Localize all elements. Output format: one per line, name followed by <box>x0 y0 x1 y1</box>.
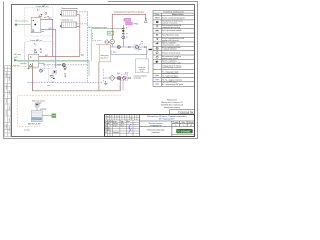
svg-text:Листов: Листов <box>188 122 193 124</box>
pipe to consumer drop <box>147 47 152 59</box>
legend symbols column <box>155 17 159 84</box>
radiator group 2 heating <box>61 20 77 28</box>
svg-text:насосная: насосная <box>139 67 146 69</box>
valve on lower return <box>47 82 54 88</box>
valve on boiler1 return <box>42 31 44 32</box>
svg-text:КП "Горенки-Юг": КП "Горенки-Юг" <box>159 119 175 121</box>
svg-text:существующие в работе: существующие в работе <box>162 67 181 69</box>
svg-text:Т.контр: Т.контр <box>105 128 110 130</box>
svg-text:установка: установка <box>134 78 141 80</box>
svg-text:насосная повысит.: насосная повысит. <box>134 76 148 78</box>
gas valve train column <box>122 25 128 47</box>
recirculation pump in dashed box <box>134 42 143 50</box>
svg-text:ввод газа: ввод газа <box>13 65 19 67</box>
svg-text:слив: слив <box>47 85 50 87</box>
booster unit pump in dashed pink box <box>117 73 128 81</box>
svg-text:В1 - водопровод ХВС дома: В1 - водопровод ХВС дома <box>162 84 183 86</box>
svg-text:Иванов: Иванов <box>113 123 118 125</box>
svg-text:28: 28 <box>190 125 192 127</box>
svg-text:оборудования: оборудования <box>150 125 162 127</box>
expansion vessel below <box>64 66 66 70</box>
svg-text:ГРПШ: ГРПШ <box>134 24 139 26</box>
boiler1 circuit pump <box>40 69 43 72</box>
svg-text:В-1: В-1 <box>34 44 37 46</box>
svg-text:пружинный сбросной: пружинный сбросной <box>162 39 179 42</box>
svg-text:Кран пробковый газовый: Кран пробковый газовый <box>162 29 182 32</box>
drain cluster below return <box>64 73 66 76</box>
svg-text:Подп: Подп <box>120 121 124 123</box>
drain to sewer symbol <box>104 81 107 85</box>
svg-text:Ду32: Ду32 <box>125 73 128 75</box>
title block top band marks <box>105 115 134 120</box>
make-up water label <box>20 63 27 65</box>
boiler 2 safety group <box>34 49 42 53</box>
svg-text:компенсатор осевой: компенсатор осевой <box>162 57 178 60</box>
svg-text:ГИП: ГИП <box>117 115 119 117</box>
return drop to lower header <box>87 65 89 82</box>
title block object name <box>147 115 187 121</box>
svg-text:Обозн.: Обозн. <box>155 14 160 16</box>
gas filter diamond <box>105 40 110 45</box>
svg-text:Ду25: Ду25 <box>14 57 18 59</box>
notes text block <box>161 100 184 109</box>
title block outer <box>105 114 195 136</box>
gas solenoid valve box <box>53 70 56 74</box>
ladder rotated text marks <box>6 73 10 132</box>
project boundary dashed tan <box>17 96 121 127</box>
svg-text:станция: станция <box>139 69 145 71</box>
gas meter unit label boiler2 <box>27 67 30 69</box>
svg-text:Кран Маевского возд.: Кран Маевского возд. <box>162 34 179 36</box>
return dashed lower header <box>28 69 104 82</box>
signature squiggle <box>129 124 131 132</box>
Du15 label <box>113 51 116 53</box>
svg-text:Разраб: Разраб <box>105 123 110 125</box>
cold water inlet top (well water) <box>15 21 32 26</box>
svg-text:Дата: Дата <box>127 121 130 123</box>
gas pipe main <box>112 14 146 39</box>
svg-text:Петров: Петров <box>113 125 118 127</box>
sheet outer border <box>4 2 198 139</box>
svg-text:П: П <box>175 125 176 127</box>
booster filter diamond <box>109 75 115 81</box>
svg-text:ГУ301016 ТМ: ГУ301016 ТМ <box>178 111 193 114</box>
booster label <box>134 76 148 80</box>
svg-text:Лист: Лист <box>182 122 186 124</box>
svg-text:Н.контр: Н.контр <box>105 130 110 132</box>
svg-text:Стадия: Стадия <box>173 122 178 124</box>
svg-text:1 этаж, АВР №1: 1 этаж, АВР №1 <box>30 39 43 42</box>
note under boundary <box>24 129 30 131</box>
svg-text:Пров.: Пров. <box>105 125 109 127</box>
boiler bottom label <box>28 123 40 126</box>
svg-text:Ду15: Ду15 <box>113 51 116 53</box>
boiler unit 2 labels <box>30 39 43 45</box>
svg-text:Ду32: Ду32 <box>117 73 120 75</box>
svg-text:12.05: 12.05 <box>130 118 133 120</box>
boiler room wall brown <box>98 62 100 91</box>
boiler unit 2 dashed boundary <box>25 42 53 69</box>
svg-text:Ду20: Ду20 <box>49 28 52 30</box>
boiler2 return pipe <box>39 63 44 65</box>
left stamp ladder strip <box>5 66 11 137</box>
svg-text:электроприводом сервο: электроприводом сервο <box>162 62 181 64</box>
svg-text:2 этаж, АВР №2: 2 этаж, АВР №2 <box>36 5 49 8</box>
pipe T2 return from boiler 1 <box>41 29 56 68</box>
circulation pump K2 circuit <box>62 64 65 67</box>
wall boiler front view <box>31 111 42 122</box>
boiler unit 1 labels <box>36 5 49 11</box>
gas metering unit boundary <box>96 45 111 62</box>
chimney adapter <box>35 103 46 110</box>
legend table frame <box>153 10 194 86</box>
svg-text:Наименование: Наименование <box>172 14 184 16</box>
svg-text:Клапан запорный проходной: Клапан запорный проходной <box>162 16 185 19</box>
title block right grid <box>140 121 195 137</box>
svg-text:Согласовано: Согласовано <box>105 115 112 117</box>
svg-text:Московская Область, Пушкинский: Московская Область, Пушкинский район, <box>147 115 187 118</box>
hot water dashed branch <box>93 33 103 41</box>
radiator supply riser T1 <box>77 15 80 57</box>
title block left texts <box>105 121 130 134</box>
cold water branch down <box>88 61 90 76</box>
document number cell <box>170 110 195 115</box>
svg-text:с мокрым ротором: с мокрым ротором <box>162 49 177 51</box>
stage/sheet header <box>173 122 193 127</box>
boiler unit 1 dashed boundary <box>25 8 53 36</box>
svg-text:1: 1 <box>183 125 184 127</box>
svg-text:подпитка: подпитка <box>20 63 27 65</box>
booster pump line <box>110 46 147 48</box>
gas line label <box>114 11 144 14</box>
svg-text:05.16: 05.16 <box>121 125 125 127</box>
svg-text:ХВС ввод: ХВС ввод <box>14 54 21 56</box>
legend table header text <box>155 12 184 17</box>
valve on pump line <box>128 46 130 47</box>
svg-text:Полотенцесушители: Полотенцесушители <box>61 8 77 10</box>
radiator group 1 towel rails <box>61 8 77 16</box>
gas inlet dashed tan <box>12 65 34 67</box>
svg-text:решения: решения <box>152 132 160 134</box>
svg-text:ХВС из скважины: ХВС из скважины <box>15 21 29 23</box>
wall boiler K1 <box>29 54 39 67</box>
pump branch dashed <box>43 65 45 71</box>
svg-text:Ду25: Ду25 <box>45 55 48 57</box>
bottom unit caption <box>32 99 45 104</box>
wall boiler K2 <box>31 18 41 33</box>
cold water riser <box>90 29 92 61</box>
company logo <box>172 129 195 134</box>
svg-text:СВК: СВК <box>108 33 111 35</box>
drawing inner frame <box>12 5 195 137</box>
building outline brown <box>32 63 120 91</box>
Du50 label <box>138 49 142 51</box>
svg-text:Узел учета: Узел учета <box>101 55 109 57</box>
svg-text:Н: Н <box>125 115 126 117</box>
svg-text:№док: №док <box>113 121 117 123</box>
gas meter <box>110 39 115 47</box>
document title text <box>147 123 165 134</box>
sewer purple drop <box>122 80 124 91</box>
valves on return header <box>57 64 61 65</box>
svg-text:2 шт: 2 шт <box>140 71 143 73</box>
return header dashed T2 <box>44 64 88 66</box>
title block left grid <box>104 114 139 136</box>
svg-text:Ду32: Ду32 <box>81 55 84 57</box>
metering unit label <box>101 55 109 59</box>
radiator port valves <box>60 14 62 27</box>
svg-text:Сидоров: Сидоров <box>113 132 119 134</box>
cold water inlet bottom <box>14 54 21 61</box>
svg-text:Отопление 1 эт.: Отопление 1 эт. <box>61 20 74 22</box>
svg-text:Ду20: Ду20 <box>49 18 52 20</box>
label well water line <box>88 27 107 29</box>
air grille green <box>52 114 57 118</box>
svg-text:05.16: 05.16 <box>121 123 125 125</box>
gas vent terminal <box>144 18 147 22</box>
svg-text:Ду50: Ду50 <box>138 49 142 51</box>
svg-text:завода изготовителя: завода изготовителя <box>164 107 180 109</box>
legend row texts <box>162 16 185 86</box>
pipe cold water to treatment <box>91 28 123 30</box>
pump station box <box>135 59 148 73</box>
gas pressure regulators <box>124 18 139 25</box>
svg-text:дымоход: дымоход <box>40 109 46 111</box>
pipe T1 supply from boiler 1 <box>41 19 53 56</box>
svg-text:вытяжка: вытяжка <box>24 129 30 131</box>
radiator return riser T2 dashed <box>77 12 88 65</box>
du labels specks <box>45 18 84 57</box>
pipe B1 cold water main <box>17 60 89 62</box>
svg-text:газа СГ-4: газа СГ-4 <box>101 57 108 59</box>
booster station line <box>103 77 131 79</box>
water meter green box <box>108 31 114 35</box>
svg-text:В-2: В-2 <box>37 9 40 11</box>
pump with crossed circle <box>117 45 120 48</box>
svg-text:Фильтр сетчатый косой: Фильтр сетчатый косой <box>162 51 180 54</box>
drain tray blue <box>111 50 147 54</box>
mixing valve cluster <box>50 75 55 79</box>
boiler 1 safety group <box>39 12 50 17</box>
svg-text:газовый отсекатель: газовый отсекатель <box>162 21 177 24</box>
svg-text:ФЕНИКС: ФЕНИКС <box>181 130 192 133</box>
valve after booster <box>128 77 130 78</box>
gas dashed riser to boiler 2 <box>24 43 26 64</box>
check valve on pump line <box>144 46 146 47</box>
gas solenoid dashed riser <box>47 64 49 82</box>
pipe T1 main horizontal <box>39 55 80 57</box>
booster pump circle <box>117 76 120 79</box>
svg-text:проходной фланцевый: проходной фланцевый <box>162 26 180 29</box>
air grille link <box>42 115 51 117</box>
